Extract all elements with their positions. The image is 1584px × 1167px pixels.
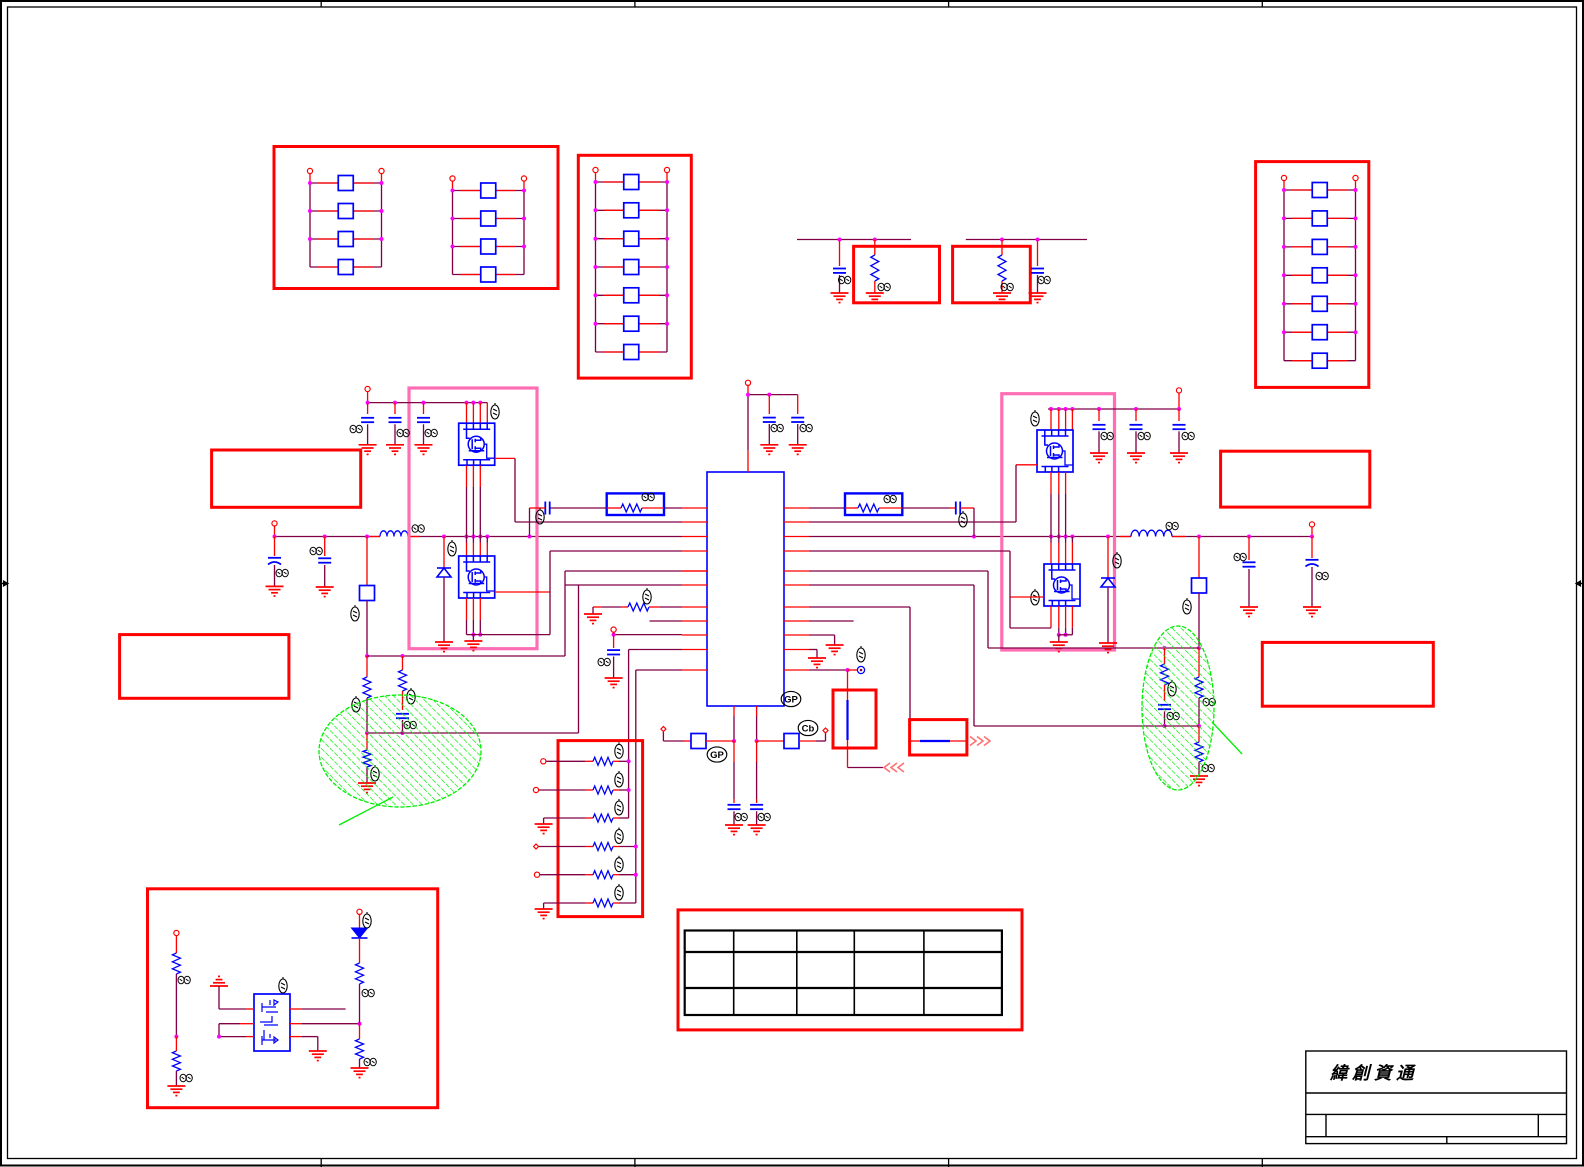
label C8 — [350, 425, 362, 433]
label R23 — [364, 1058, 376, 1066]
wire — [639, 238, 659, 240]
wire — [1050, 543, 1052, 565]
box around R — [953, 246, 1031, 302]
bank1 ladder A capacitor C2 — [338, 204, 353, 219]
wire — [290, 1023, 302, 1025]
wire — [845, 507, 858, 509]
wire — [1058, 409, 1060, 430]
ground — [1127, 453, 1145, 463]
junction dot — [308, 181, 312, 185]
wire — [472, 620, 474, 635]
bank2 ladder terminal stub left — [595, 173, 597, 183]
label R4 — [407, 688, 415, 704]
resistor R11 — [593, 843, 613, 851]
wire — [479, 537, 481, 543]
wire — [1283, 190, 1285, 361]
wire — [1071, 537, 1073, 543]
zener diode D3 (solid) — [352, 928, 368, 938]
ground — [748, 825, 766, 835]
wire — [359, 1059, 361, 1068]
label C5 — [276, 569, 288, 577]
capacitor — [1093, 425, 1106, 429]
label R16 — [1203, 698, 1215, 706]
resistor R14 — [858, 504, 879, 512]
wire — [1248, 537, 1250, 561]
wire — [359, 1024, 361, 1039]
wire — [1001, 240, 1003, 256]
label C17 — [1182, 432, 1194, 440]
bank1 ladder A capacitor C4 — [338, 260, 353, 275]
terminal VIN left — [272, 521, 277, 526]
wire — [1198, 648, 1200, 677]
ground — [266, 586, 284, 596]
junction dot — [365, 535, 369, 539]
junction dot — [442, 535, 446, 539]
capacitor — [318, 558, 331, 562]
wire — [604, 238, 624, 240]
bank1 ladder B rung 3 wire — [453, 246, 525, 248]
junction dot — [217, 1035, 221, 1039]
junction — [401, 731, 405, 735]
wire — [585, 789, 593, 791]
wire — [628, 650, 630, 819]
label Q3 — [1031, 410, 1039, 426]
junction dot — [1282, 245, 1286, 249]
bank2 ladder rung 7 wire — [596, 351, 668, 353]
wire — [733, 762, 735, 799]
bank2 ladder terminal right — [664, 167, 669, 172]
wire — [1327, 303, 1347, 305]
wire — [619, 817, 629, 819]
wire — [1065, 537, 1067, 543]
wire — [175, 936, 177, 953]
wire — [613, 760, 619, 762]
ground — [386, 445, 404, 455]
wire — [496, 190, 516, 192]
IC left pin stub y=635 — [682, 634, 707, 636]
wire — [621, 606, 628, 608]
wire — [423, 403, 425, 414]
resistor R8 — [593, 757, 613, 765]
junction dot — [665, 322, 669, 326]
junction dot — [1134, 407, 1138, 411]
ground (inverted) — [210, 976, 228, 986]
wire — [613, 846, 619, 848]
label U2 — [279, 977, 287, 993]
junction — [1197, 724, 1201, 728]
wire — [1071, 606, 1073, 628]
transistor Q2 (low-side MOSFET) — [459, 556, 495, 598]
label R7 — [643, 588, 651, 604]
ground — [316, 587, 334, 597]
wire — [486, 537, 488, 543]
bank3 ladder rung 3 wire — [1284, 246, 1356, 248]
wire — [496, 274, 516, 276]
IC right pin stub y=649.5 — [784, 649, 809, 651]
junction dot — [471, 535, 475, 539]
wire — [381, 183, 383, 267]
wire — [317, 1037, 319, 1051]
junction — [174, 1035, 178, 1039]
wire — [461, 246, 481, 248]
label R1 — [878, 283, 890, 291]
junction dot — [1197, 535, 1201, 539]
ground — [789, 445, 807, 455]
wire — [1050, 472, 1052, 494]
junction dot — [1049, 535, 1053, 539]
wire — [461, 274, 481, 276]
wire — [756, 716, 758, 741]
junction dot — [665, 208, 669, 212]
IC left pin stub y=522 — [682, 521, 707, 523]
ground — [1190, 776, 1208, 786]
bank3 ladder rung 4 wire — [1284, 274, 1356, 276]
wire — [604, 323, 624, 325]
wire net B — [966, 239, 1087, 241]
bank2 ladder rung 6 wire — [596, 323, 668, 325]
junction dot — [485, 535, 489, 539]
wire — [408, 536, 420, 538]
wire — [1327, 246, 1347, 248]
bank1 ladder B capacitor C4 — [481, 267, 496, 282]
junction dot — [522, 189, 526, 193]
bank2 ladder capacitor C1 — [624, 175, 639, 190]
bank3 ladder capacitor C7 — [1312, 353, 1327, 368]
ground — [1029, 293, 1047, 303]
junction dot — [1247, 535, 1251, 539]
wire — [543, 903, 545, 909]
wire — [639, 209, 659, 211]
junction — [627, 759, 631, 763]
junction dot — [1282, 302, 1286, 306]
label C10 — [425, 429, 437, 437]
terminal row 4 — [534, 844, 539, 849]
wire — [614, 634, 682, 636]
ground — [167, 1086, 185, 1096]
resistor R6 — [621, 504, 642, 512]
IC left pin stub y=536.5 — [682, 536, 707, 538]
bank2 ladder terminal left — [593, 167, 598, 172]
junction dot — [478, 401, 482, 405]
ground — [351, 1068, 369, 1078]
wire — [1065, 494, 1067, 537]
bank1 ladder B terminal stub left — [452, 181, 454, 191]
wire — [1058, 494, 1060, 537]
wire — [1327, 217, 1347, 219]
wire — [318, 238, 338, 240]
capacitor C3 — [763, 418, 776, 422]
junction — [627, 788, 631, 792]
wire — [466, 403, 468, 424]
wire — [472, 487, 474, 537]
wire — [309, 183, 311, 267]
junction dot — [522, 245, 526, 249]
junction dot — [665, 180, 669, 184]
wire IC row 571 left — [565, 570, 682, 572]
wire — [539, 874, 585, 876]
bank1 ladder B terminal right — [521, 176, 526, 181]
wire — [246, 1008, 254, 1010]
junction dot — [451, 189, 455, 193]
svg-text:GP: GP — [784, 695, 798, 706]
wire — [768, 424, 770, 445]
label D2 — [1113, 552, 1121, 568]
bank3 ladder terminal stub left — [1283, 181, 1285, 191]
label R13 — [615, 884, 623, 900]
junction dot — [732, 739, 736, 743]
wire — [1058, 606, 1060, 628]
capacitor — [389, 418, 402, 422]
wire — [402, 656, 404, 670]
wire — [663, 740, 683, 742]
wire — [274, 537, 276, 557]
wire — [619, 760, 629, 762]
capacitor C12 — [607, 650, 620, 654]
junction — [478, 633, 482, 637]
resistor bank box — [558, 741, 643, 917]
IC U2 body — [254, 994, 290, 1051]
resistor — [399, 670, 407, 691]
wire IC row 585 left — [565, 584, 682, 586]
bank3 ladder rung 5 wire — [1284, 303, 1356, 305]
junction dot — [1049, 407, 1053, 411]
wire — [1198, 762, 1200, 776]
junction dot — [528, 535, 532, 539]
wire to rail — [973, 508, 975, 537]
border centerline arrow right — [1576, 581, 1584, 586]
junction dot — [478, 535, 482, 539]
label C18 — [959, 511, 967, 527]
wire — [1058, 537, 1060, 543]
junction — [634, 873, 638, 877]
wire — [747, 451, 749, 472]
wire — [219, 1023, 240, 1025]
label D3 — [363, 912, 371, 928]
wire — [1050, 606, 1052, 628]
wire — [1050, 627, 1052, 629]
junction — [634, 845, 638, 849]
terminal stub — [1178, 393, 1180, 409]
inductor L1 — [380, 531, 408, 537]
label R12 — [615, 856, 623, 872]
terminal row 2 — [533, 787, 538, 792]
wire — [593, 606, 602, 608]
ground — [831, 293, 849, 303]
wire — [613, 635, 615, 648]
wire — [472, 543, 474, 557]
wire — [987, 571, 989, 648]
wire — [1065, 409, 1067, 430]
wire — [1120, 536, 1131, 538]
wire — [756, 762, 758, 799]
wire — [496, 246, 516, 248]
junction dot — [594, 237, 598, 241]
wire — [809, 584, 974, 586]
wire — [1164, 685, 1166, 701]
bank2 ladder capacitor C4 — [624, 260, 639, 275]
wire — [797, 395, 799, 414]
wire — [733, 811, 735, 825]
capacitor (polarized) — [1306, 560, 1319, 567]
ground — [725, 825, 743, 835]
bank3 ladder terminal left — [1281, 175, 1286, 180]
wire — [902, 507, 950, 509]
wire — [1248, 569, 1250, 607]
wire — [1058, 628, 1060, 635]
junction dot — [308, 237, 312, 241]
wire — [1048, 408, 1179, 410]
wire — [1065, 628, 1067, 635]
bank1 ladder B terminal stub right — [523, 181, 525, 191]
IC right pin stub y=607 — [784, 606, 809, 608]
terminal stub — [367, 392, 369, 403]
input arrows <<< — [884, 763, 904, 772]
wire net A — [797, 239, 911, 241]
resistor R10 — [593, 814, 613, 822]
label C21 — [758, 813, 770, 821]
terminal left — [174, 930, 179, 935]
label C20 — [735, 813, 747, 821]
label C16 — [1138, 432, 1150, 440]
wire — [1292, 274, 1312, 276]
wire — [950, 507, 956, 509]
label R6 — [642, 493, 654, 501]
wire — [175, 1037, 177, 1051]
wire — [472, 403, 474, 424]
junction dot — [594, 322, 598, 326]
junction dot — [323, 535, 327, 539]
wire — [466, 543, 468, 557]
output arrows >>> — [970, 737, 990, 746]
wire — [366, 537, 368, 586]
wire — [848, 767, 884, 769]
bank1 ladder A capacitor C3 — [338, 232, 353, 247]
wire — [733, 716, 735, 741]
resistor R21 — [172, 1051, 180, 1071]
wire row-571 link — [367, 655, 565, 657]
wire — [619, 846, 636, 848]
bank3 ladder capacitor C1 — [1312, 183, 1327, 198]
wire — [662, 732, 664, 741]
junction dot — [594, 180, 598, 184]
wire vertical to IC pin 571 — [564, 571, 566, 656]
wire — [602, 606, 621, 608]
wire — [366, 601, 368, 657]
wire — [595, 182, 597, 352]
junction dot — [522, 217, 526, 221]
resistor R1 — [871, 255, 879, 281]
junction dot — [1354, 302, 1358, 306]
wire — [756, 706, 758, 716]
capacitor C11 (series) — [545, 502, 549, 515]
box around fuse F2 — [910, 720, 967, 755]
wire — [834, 635, 836, 645]
wire — [879, 507, 902, 509]
wire — [467, 634, 551, 636]
wire — [486, 543, 488, 557]
IC right pin stub y=551 — [784, 550, 809, 552]
wire — [825, 733, 827, 741]
bank2 ladder capacitor C6 — [624, 316, 639, 331]
wire — [466, 620, 468, 635]
label GP (circled) — [707, 691, 818, 762]
annotation box left-lower — [120, 635, 289, 699]
wire — [1009, 551, 1011, 628]
wire — [733, 706, 735, 716]
junction dot — [1064, 535, 1068, 539]
label L2 — [1166, 522, 1178, 530]
terminal VBUS right — [1176, 388, 1181, 393]
bank1 ladder A rung 4 wire — [310, 266, 382, 268]
junction dot — [1106, 535, 1110, 539]
wire — [1292, 331, 1312, 333]
wire to rail — [529, 508, 531, 537]
wire IC row 522 right — [809, 521, 1016, 523]
wire — [523, 191, 525, 275]
bank2 ladder rung 2 wire — [596, 209, 668, 211]
wire — [809, 536, 1131, 538]
bank1 ladder B terminal left — [450, 176, 455, 181]
wire — [756, 799, 758, 803]
junction node — [365, 654, 369, 658]
wire — [1198, 698, 1200, 726]
wire — [466, 466, 468, 487]
terminal right — [357, 909, 362, 914]
junction — [1036, 238, 1040, 242]
wire — [514, 458, 516, 522]
capacitor bank box 3 — [1256, 162, 1369, 388]
wire — [585, 760, 593, 762]
border tick bottom 4 — [1261, 1159, 1263, 1167]
terminal stub — [1311, 527, 1313, 537]
wire — [443, 577, 445, 642]
border tick top 2 — [634, 0, 636, 7]
wire — [1071, 628, 1073, 635]
wire — [486, 403, 488, 424]
wire — [768, 395, 770, 414]
wire — [1327, 274, 1347, 276]
wire — [367, 403, 369, 414]
bank1 ladder B capacitor C2 — [481, 211, 496, 226]
wire — [402, 720, 404, 733]
terminal VBUS left — [365, 386, 370, 391]
wire — [543, 818, 545, 824]
wire — [604, 351, 624, 353]
wire — [408, 536, 682, 538]
wire — [538, 789, 585, 791]
wire — [756, 741, 758, 762]
wire — [706, 740, 734, 742]
wire — [839, 275, 841, 293]
wire — [366, 698, 368, 733]
terminal stub — [274, 526, 276, 537]
wire — [545, 760, 585, 762]
wire — [684, 740, 692, 742]
label L1 — [412, 525, 424, 533]
jumper J2 body — [1192, 578, 1207, 593]
wire — [324, 565, 326, 587]
junction dot — [1282, 216, 1286, 220]
capacitor C1 — [833, 269, 846, 273]
wire — [816, 740, 826, 742]
label C3 — [771, 424, 783, 432]
wire VCC bus — [748, 394, 798, 396]
wire — [973, 585, 975, 726]
bank1 ladder A terminal left — [307, 168, 312, 173]
border tick top 3 — [948, 0, 950, 7]
capacitor — [1243, 562, 1256, 566]
wire — [1107, 587, 1109, 643]
